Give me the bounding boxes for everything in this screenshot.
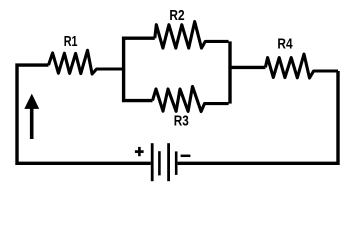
svg-text:R3: R3 <box>174 113 189 130</box>
battery long plate 1 (+) <box>151 143 154 181</box>
resistor R2 <box>155 22 229 48</box>
battery long plate 3 <box>167 143 170 181</box>
svg-text:R1: R1 <box>64 33 78 50</box>
svg-text:R2: R2 <box>169 7 184 24</box>
resistor R1 <box>49 50 124 74</box>
wire middle right <box>230 66 265 69</box>
battery B1 <box>152 143 176 181</box>
resistor R4 <box>265 54 338 78</box>
battery short plate 2 <box>158 151 161 175</box>
current arrow <box>24 94 39 139</box>
wire parallel-block right vertical <box>228 41 231 103</box>
battery short plate 4 (-) <box>175 151 178 175</box>
battery plus sign <box>135 147 144 156</box>
resistor R3 <box>153 86 229 111</box>
svg-text:R4: R4 <box>277 36 293 53</box>
wire right side and bottom-right <box>178 71 338 163</box>
wire left side and bottom-left <box>17 65 151 163</box>
wire parallel-block left vertical with branch stubs <box>124 38 155 100</box>
battery minus sign <box>181 155 191 158</box>
